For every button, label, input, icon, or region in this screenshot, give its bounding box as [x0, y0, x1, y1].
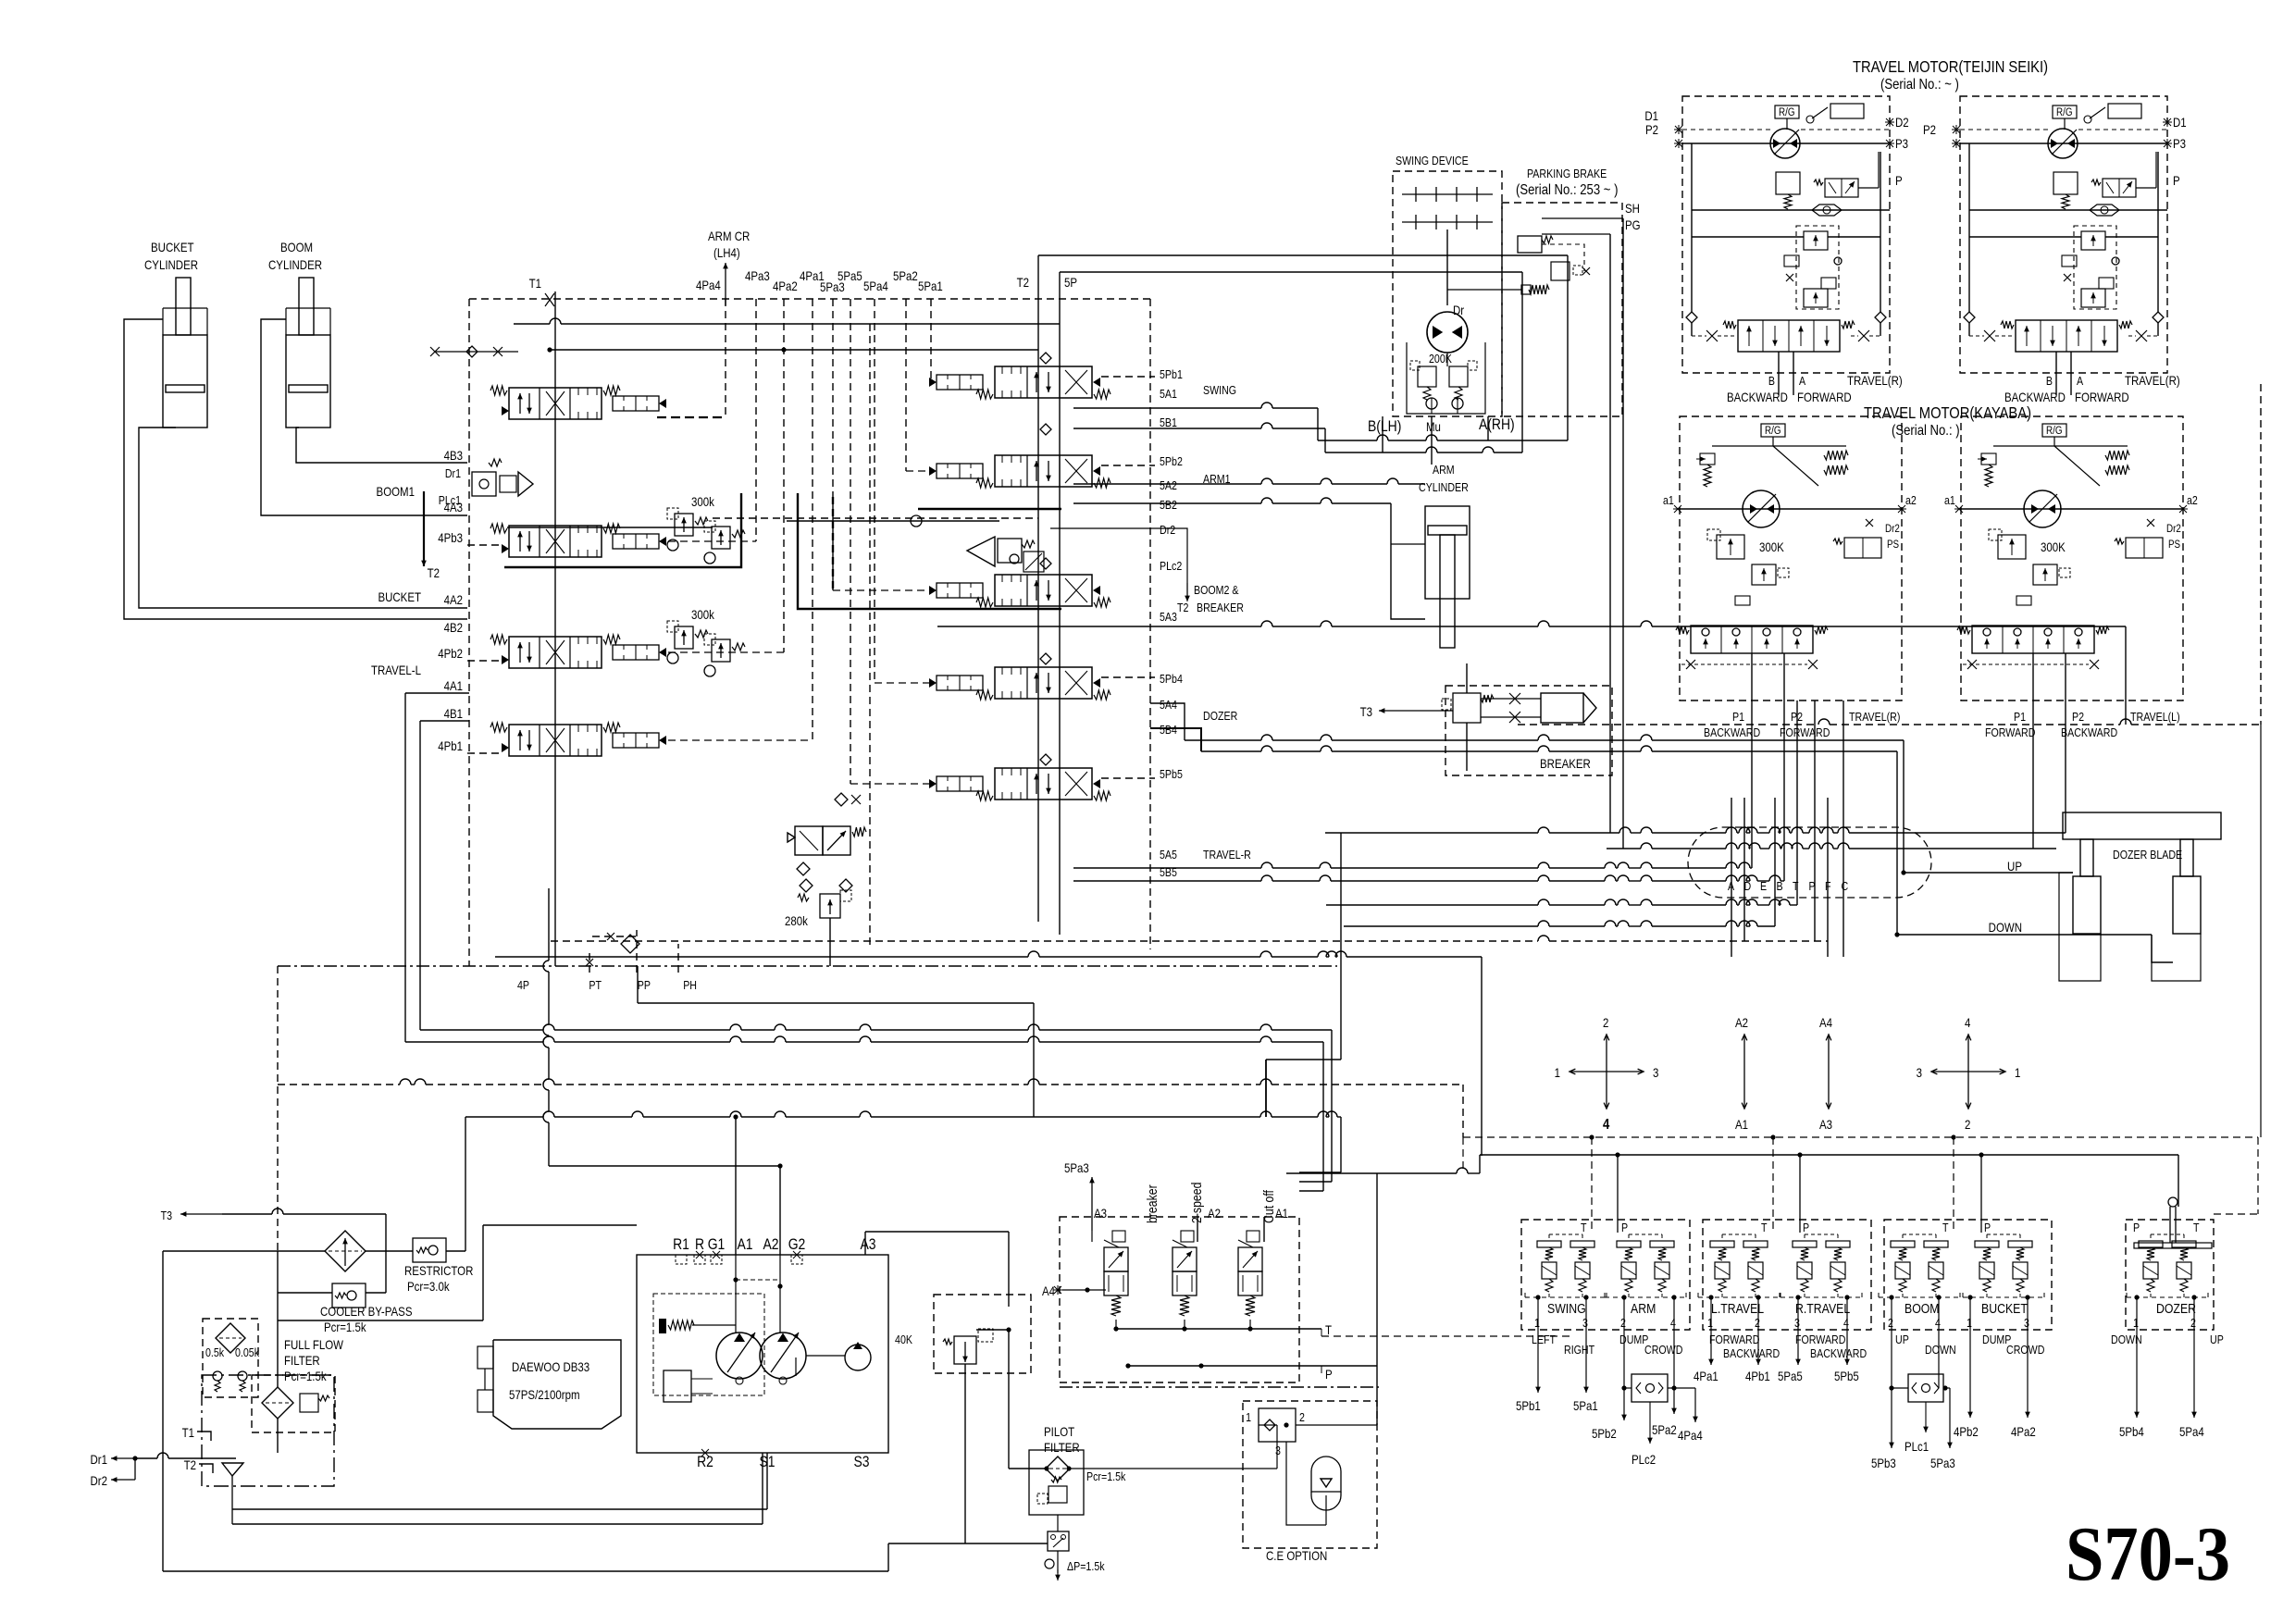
svg-text:T: T [1793, 879, 1799, 893]
svg-text:4B3: 4B3 [444, 448, 463, 463]
svg-text:R: R [695, 1236, 704, 1254]
svg-text:4: 4 [1670, 1316, 1676, 1330]
accumulator [1311, 1457, 1341, 1492]
svg-text:3: 3 [1794, 1316, 1800, 1330]
svg-text:DAEWOO DB33: DAEWOO DB33 [512, 1359, 589, 1374]
svg-text:1: 1 [2133, 1316, 2139, 1330]
travel motor Teijin Seiki left [1960, 96, 2167, 373]
svg-text:D1: D1 [2173, 115, 2187, 130]
svg-text:4Pa4: 4Pa4 [696, 278, 721, 292]
svg-text:PS: PS [1887, 539, 1899, 551]
svg-text:A1: A1 [1735, 1117, 1748, 1132]
oil cooler [325, 1231, 366, 1271]
svg-text:280k: 280k [785, 913, 808, 928]
svg-text:5Pb2: 5Pb2 [1592, 1426, 1617, 1441]
wire bucket cylinder piping [124, 319, 467, 619]
svg-text:1: 1 [1555, 1065, 1560, 1080]
wire 5A3 line [937, 626, 1261, 627]
anticavitation check top-left [435, 351, 518, 353]
svg-text:BUCKET: BUCKET [151, 240, 194, 254]
svg-text:5Pb3: 5Pb3 [1871, 1456, 1896, 1470]
parking brake block [1502, 203, 1622, 416]
wire S1 down [766, 1453, 768, 1509]
svg-text:DOZER BLADE: DOZER BLADE [2113, 848, 2182, 862]
svg-text:4P: 4P [517, 978, 529, 992]
svg-text:C.E OPTION: C.E OPTION [1266, 1548, 1327, 1563]
wire dashed PS bus right [1518, 724, 1818, 725]
svg-text:5Pb1: 5Pb1 [1516, 1398, 1541, 1413]
svg-text:T1: T1 [182, 1425, 194, 1440]
svg-text:P: P [1621, 1221, 1628, 1234]
cooler by-pass [332, 1283, 366, 1308]
svg-text:DOWN: DOWN [1989, 920, 2022, 935]
svg-text:(Serial No.: ~ ): (Serial No.: ~ ) [1880, 77, 1959, 93]
svg-text:R1: R1 [673, 1236, 689, 1254]
tank dashed box [202, 1375, 334, 1486]
svg-text:A3: A3 [860, 1236, 875, 1254]
wire cooler line [163, 1250, 325, 1252]
boom2 lock valve [967, 537, 995, 566]
solenoid valve 2-speed [1173, 1247, 1197, 1271]
svg-text:4Pb2: 4Pb2 [438, 646, 463, 661]
svg-text:4Pa4: 4Pa4 [1678, 1428, 1703, 1443]
svg-text:4Pb1: 4Pb1 [1745, 1369, 1770, 1383]
wire T2 return left vertical [1037, 255, 1039, 922]
svg-text:R/G: R/G [2056, 106, 2073, 118]
pilot valve box swing/arm [1521, 1220, 1690, 1330]
svg-text:T3: T3 [161, 1209, 173, 1222]
svg-text:Dr2: Dr2 [1160, 523, 1175, 537]
wire 40K connections [1008, 1232, 1010, 1307]
pilot valve box travel [1703, 1220, 1871, 1330]
svg-text:FORWARD: FORWARD [1709, 1333, 1759, 1346]
svg-text:BREAKER: BREAKER [1540, 756, 1591, 771]
svg-text:TRAVEL MOTOR(TEIJIN SEIKI): TRAVEL MOTOR(TEIJIN SEIKI) [1853, 58, 2048, 77]
svg-text:P2: P2 [1791, 710, 1803, 724]
svg-text:Pcr=1.5k: Pcr=1.5k [324, 1320, 366, 1334]
svg-text:RIGHT: RIGHT [1564, 1343, 1594, 1357]
svg-text:4Pb2: 4Pb2 [1954, 1424, 1979, 1439]
wire pump internals [735, 1255, 737, 1333]
joystick axis A2/A1 [1743, 1035, 1745, 1072]
svg-text:A: A [1728, 879, 1734, 893]
gear pump [845, 1345, 871, 1370]
svg-text:FORWARD: FORWARD [1985, 725, 2035, 739]
wire A2 A1 feeds up [1197, 1217, 1198, 1242]
svg-text:A4: A4 [1819, 1015, 1832, 1030]
svg-text:2: 2 [1620, 1316, 1626, 1330]
svg-text:FORWARD: FORWARD [1780, 725, 1830, 739]
svg-text:4Pa1: 4Pa1 [1694, 1369, 1718, 1383]
svg-text:FILTER: FILTER [1044, 1440, 1080, 1455]
svg-text:A2: A2 [1735, 1015, 1748, 1030]
svg-text:5Pb4: 5Pb4 [1160, 672, 1183, 686]
svg-text:3: 3 [1917, 1065, 1922, 1080]
svg-text:BACKWARD: BACKWARD [1723, 1346, 1780, 1360]
wire pilot line verticals top [755, 299, 757, 541]
pilot valve box dozer [2126, 1220, 2214, 1330]
svg-text:5Pa1: 5Pa1 [918, 279, 943, 293]
svg-text:4Pa3: 4Pa3 [745, 268, 770, 283]
svg-text:2-speed: 2-speed [1189, 1183, 1204, 1223]
wire tank supply vertical [277, 1293, 279, 1320]
svg-text:T2: T2 [1017, 275, 1029, 290]
svg-text:5A5: 5A5 [1160, 848, 1177, 862]
svg-text:BUCKET: BUCKET [1981, 1301, 2028, 1316]
joystick cross swing/arm [1570, 1071, 1607, 1072]
swing motor [1427, 312, 1468, 353]
svg-text:T: T [2193, 1221, 2200, 1234]
svg-text:5Pb2: 5Pb2 [1160, 454, 1183, 468]
svg-text:DOZER: DOZER [1203, 709, 1238, 723]
parking brake spring coil [1529, 285, 1549, 294]
svg-text:P2: P2 [1645, 122, 1658, 137]
svg-text:5Pa2: 5Pa2 [1652, 1422, 1677, 1437]
wire dashed drain to T3 area [277, 966, 279, 1251]
svg-text:(Serial No.: 253 ~ ): (Serial No.: 253 ~ ) [1516, 182, 1618, 198]
wire pilot P solid feed [1480, 1154, 2178, 1156]
svg-text:5A2: 5A2 [1160, 478, 1177, 492]
svg-text:D2: D2 [1895, 115, 1909, 130]
svg-text:Pcr=1.5k: Pcr=1.5k [1086, 1469, 1125, 1483]
svg-text:5B2: 5B2 [1160, 498, 1177, 512]
joystick axis A4/A3 [1828, 1035, 1830, 1072]
valve bucket 4 section [509, 637, 602, 668]
svg-text:PT: PT [589, 978, 602, 992]
wire T2 drain bold [423, 491, 425, 566]
dash-dot block bottom [1060, 1386, 1379, 1388]
svg-text:F: F [1825, 879, 1831, 893]
svg-text:R.TRAVEL: R.TRAVEL [1795, 1301, 1851, 1316]
svg-text:B: B [2046, 374, 2053, 388]
svg-text:5A3: 5A3 [1160, 610, 1177, 624]
svg-text:1: 1 [1707, 1316, 1713, 1330]
wire 4Pb3 dashed pilot [467, 544, 500, 546]
parking brake relief [1551, 262, 1570, 280]
svg-text:ΔP=1.5k: ΔP=1.5k [1067, 1559, 1105, 1573]
svg-text:1: 1 [1534, 1316, 1540, 1330]
svg-text:FORWARD: FORWARD [2075, 390, 2129, 404]
svg-text:RESTRICTOR: RESTRICTOR [404, 1263, 473, 1278]
svg-text:PILOT: PILOT [1044, 1424, 1074, 1439]
wire T/P drops to pilot boxes [1591, 1137, 1593, 1233]
swing check valves [1426, 398, 1437, 409]
svg-text:DOWN: DOWN [2111, 1333, 2142, 1346]
svg-text:BACKWARD: BACKWARD [2061, 725, 2117, 739]
svg-text:P1: P1 [2014, 710, 2026, 724]
svg-text:T2: T2 [1177, 601, 1188, 614]
svg-text:Dr2: Dr2 [91, 1473, 107, 1488]
svg-text:5Pa4: 5Pa4 [863, 279, 888, 293]
wire filter plumbing [277, 1320, 279, 1387]
wire dozer up [1904, 872, 2073, 874]
svg-text:5Pb5: 5Pb5 [1834, 1369, 1859, 1383]
svg-text:BOOM2 &: BOOM2 & [1194, 583, 1239, 597]
svg-text:Mu: Mu [1426, 419, 1441, 434]
valve swing 5 section [995, 366, 1092, 398]
wire 4Pb1 dashed pilot [467, 752, 500, 754]
svg-text:B(LH): B(LH) [1368, 418, 1401, 436]
svg-text:TRAVEL-L: TRAVEL-L [371, 663, 421, 677]
svg-text:4Pa2: 4Pa2 [2011, 1424, 2036, 1439]
svg-text:ARM: ARM [1433, 463, 1455, 477]
svg-text:T: T [1942, 1221, 1949, 1234]
svg-text:PLc2: PLc2 [1632, 1452, 1656, 1467]
svg-text:TRAVEL(R): TRAVEL(R) [1847, 373, 1903, 388]
svg-text:S70-3: S70-3 [2066, 1511, 2230, 1597]
svg-text:A4: A4 [1042, 1283, 1055, 1298]
svg-text:G2: G2 [788, 1236, 806, 1254]
dozer lever [2168, 1197, 2178, 1207]
valve arm-crowd 4 section (top row) [509, 388, 602, 419]
wire horizontal pilot collectors [514, 323, 550, 325]
svg-text:T1: T1 [529, 276, 541, 291]
svg-text:5Pb1: 5Pb1 [1160, 367, 1183, 381]
svg-text:5A4: 5A4 [1160, 698, 1177, 712]
svg-text:57PS/2100rpm: 57PS/2100rpm [509, 1387, 580, 1402]
wire 5B1 swing line [1073, 428, 1261, 429]
wire bundle to teijin B [1326, 904, 1538, 906]
wire 4B1 travel-L line long [420, 720, 469, 722]
pump regulator [668, 1320, 694, 1330]
svg-text:a2: a2 [1905, 493, 1917, 507]
svg-text:1: 1 [1967, 1316, 1972, 1330]
svg-text:5A1: 5A1 [1160, 387, 1177, 401]
differential switch [1048, 1531, 1069, 1551]
svg-text:2: 2 [1755, 1316, 1760, 1330]
wire parking brake lines [1542, 244, 1584, 271]
svg-text:300K: 300K [2041, 539, 2066, 554]
wire 4Pa4 arm-cr bold dashed [725, 299, 726, 417]
svg-text:PG: PG [1625, 217, 1641, 232]
breaker relief valve [1453, 693, 1481, 723]
filter on PP line [592, 936, 637, 937]
svg-text:1: 1 [1246, 1410, 1251, 1424]
wire A1 A2 A3 feeds [735, 1117, 737, 1255]
svg-text:3: 3 [2024, 1316, 2029, 1330]
svg-text:A: A [2077, 374, 2083, 388]
svg-text:4B1: 4B1 [444, 706, 463, 721]
svg-text:A3: A3 [1094, 1206, 1107, 1221]
wire parking brake SH riser [1622, 218, 1624, 849]
wire swing motor loop [1407, 342, 1485, 414]
wire dozer down [1897, 934, 2152, 936]
check valve block [1259, 1408, 1296, 1442]
svg-text:4A1: 4A1 [444, 678, 463, 693]
wire boom junction bold B [798, 493, 1061, 609]
svg-text:A3: A3 [1819, 1117, 1832, 1132]
wire tank bottom lines [232, 1523, 763, 1525]
svg-text:CROWD: CROWD [2006, 1343, 2044, 1357]
valve dozer 5 section [995, 667, 1092, 699]
svg-text:L.TRAVEL: L.TRAVEL [1711, 1301, 1764, 1316]
breaker block dashed [1445, 686, 1612, 775]
bypass filter block [203, 1319, 258, 1397]
svg-text:5Pa4: 5Pa4 [2179, 1424, 2204, 1439]
svg-text:4Pa2: 4Pa2 [773, 279, 798, 293]
pump port dashed stubs [676, 1255, 687, 1264]
svg-text:T2: T2 [184, 1457, 196, 1472]
parking brake valve [1518, 236, 1542, 253]
svg-text:2: 2 [1965, 1117, 1970, 1132]
svg-text:4: 4 [1965, 1015, 1970, 1030]
svg-text:DOWN: DOWN [1925, 1343, 1956, 1357]
svg-text:P: P [1803, 1221, 1809, 1234]
valve travel-L 4 section [509, 725, 602, 756]
svg-text:PS: PS [2168, 539, 2180, 551]
svg-text:COOLER BY-PASS: COOLER BY-PASS [320, 1304, 412, 1319]
svg-text:5Pb5: 5Pb5 [1160, 767, 1183, 781]
svg-text:UP: UP [2210, 1333, 2224, 1346]
wire center riser thick [1265, 1060, 1267, 1117]
wire kayaba right P1 P2 risers [1751, 700, 1753, 868]
svg-text:P1: P1 [1732, 710, 1744, 724]
svg-text:5Pa2: 5Pa2 [893, 268, 918, 283]
svg-text:5B1: 5B1 [1160, 415, 1177, 429]
pilot output arrows simple [1537, 1330, 1539, 1393]
breaker shutoff valves [1509, 693, 1520, 704]
svg-text:TRAVEL(L): TRAVEL(L) [2130, 710, 2180, 724]
svg-text:TRAVEL(R): TRAVEL(R) [1849, 710, 1900, 724]
svg-text:300K: 300K [1759, 539, 1784, 554]
svg-text:DOZER: DOZER [2156, 1301, 2196, 1316]
wire pilot dashed supply bus [278, 1084, 400, 1085]
breaker body [1541, 693, 1583, 723]
PLc1 shuttle under BOOM [1891, 1330, 1892, 1448]
svg-text:SWING DEVICE: SWING DEVICE [1396, 154, 1469, 167]
PT PP PH pilot symbols [589, 953, 590, 973]
svg-text:PARKING BRAKE: PARKING BRAKE [1527, 167, 1607, 180]
svg-text:5Pa1: 5Pa1 [1573, 1398, 1598, 1413]
svg-text:300k: 300k [691, 494, 714, 509]
svg-text:(LH4): (LH4) [713, 245, 740, 260]
wire 280k drain [829, 918, 831, 966]
svg-text:Dr1: Dr1 [91, 1452, 107, 1467]
svg-text:UP: UP [1895, 1333, 1909, 1346]
swing device block [1393, 171, 1502, 416]
solenoid valve block dashed box [1060, 1217, 1299, 1382]
svg-text:5Pa3: 5Pa3 [1064, 1160, 1089, 1175]
svg-text:5B5: 5B5 [1160, 865, 1177, 879]
svg-text:PLc2: PLc2 [1160, 559, 1182, 573]
svg-text:Dr2: Dr2 [2166, 523, 2181, 535]
wire dashed drain bundle [551, 940, 1538, 942]
svg-text:4Pb3: 4Pb3 [438, 530, 463, 545]
svg-text:ARM CR: ARM CR [708, 229, 750, 243]
travel motor Kayaba left [1961, 416, 2183, 700]
svg-text:40K: 40K [895, 1333, 912, 1346]
wire 4P feed vertical [548, 888, 550, 961]
valve arm1 5 section [995, 455, 1092, 487]
svg-text:PP: PP [638, 978, 651, 992]
svg-text:BREAKER: BREAKER [1197, 601, 1244, 614]
travel straight valve [795, 826, 823, 855]
svg-text:BOOM: BOOM [280, 240, 313, 254]
svg-text:5Pa5: 5Pa5 [1778, 1369, 1803, 1383]
svg-text:5Pa3: 5Pa3 [1930, 1456, 1955, 1470]
svg-text:TRAVEL MOTOR(KAYABA): TRAVEL MOTOR(KAYABA) [1864, 404, 2031, 423]
wire bypass [277, 1251, 279, 1293]
svg-text:P3: P3 [1895, 136, 1908, 151]
check valves on 5P feed [1040, 353, 1051, 364]
svg-text:2: 2 [2190, 1316, 2196, 1330]
wire 5Pb pilot dashed stubs [1101, 376, 1155, 378]
wire 5B4 dozer down line [1150, 728, 1201, 751]
wire PP return line [637, 966, 639, 1003]
svg-text:A(RH): A(RH) [1479, 416, 1515, 434]
wire kayaba left ports down [2032, 700, 2034, 849]
svg-text:T3: T3 [1360, 704, 1372, 719]
svg-text:Pcr=3.0k: Pcr=3.0k [407, 1279, 450, 1294]
pilot valve box boom/bucket [1884, 1220, 2052, 1330]
svg-text:SWING: SWING [1547, 1301, 1586, 1316]
svg-text:CYLINDER: CYLINDER [268, 257, 322, 272]
svg-text:PH: PH [683, 978, 697, 992]
svg-text:A2: A2 [1208, 1206, 1221, 1221]
svg-text:0.05k: 0.05k [235, 1345, 259, 1359]
svg-text:BACKWARD: BACKWARD [1810, 1346, 1867, 1360]
svg-text:0.5k: 0.5k [205, 1345, 224, 1359]
wire swing Mu stub [1431, 416, 1433, 465]
boom1 holding valve [472, 472, 496, 496]
svg-text:300k: 300k [691, 607, 714, 622]
wire 40K drain to tank [964, 1364, 966, 1543]
svg-text:P: P [1895, 173, 1903, 188]
dashed boundary of 5-series block [469, 298, 1150, 300]
svg-text:P: P [1325, 1367, 1333, 1382]
svg-text:3: 3 [1582, 1316, 1588, 1330]
svg-text:D1: D1 [1644, 108, 1658, 123]
valve boom1 4 section [509, 526, 602, 557]
hose bundle oval [1688, 827, 1931, 898]
svg-text:B: B [1777, 879, 1783, 893]
svg-text:BACKWARD: BACKWARD [2004, 390, 2066, 404]
svg-text:a1: a1 [1944, 493, 1955, 507]
svg-text:Dr1: Dr1 [445, 466, 462, 480]
wire arm bold C [918, 508, 1061, 510]
svg-text:B: B [1768, 374, 1775, 388]
wire 5Pa3 bold dashed column [832, 497, 834, 590]
wire oval columns [1731, 798, 1732, 957]
svg-text:PLc1: PLc1 [1905, 1439, 1929, 1454]
svg-text:BUCKET: BUCKET [378, 589, 421, 604]
svg-text:A1: A1 [737, 1236, 752, 1254]
svg-text:BACKWARD: BACKWARD [1727, 390, 1788, 404]
svg-text:P: P [2173, 173, 2180, 188]
main piston pumps [716, 1333, 763, 1379]
C.E option dashed box [1243, 1401, 1377, 1548]
wire 5B2 arm line [1073, 502, 1261, 504]
wire 5P feed vertical [1059, 272, 1061, 935]
svg-text:5Pa5: 5Pa5 [838, 268, 862, 283]
svg-text:breaker: breaker [1145, 1184, 1160, 1223]
wire Dr2 line [1050, 527, 1155, 529]
wire 5A4 dozer up line [1150, 703, 1185, 740]
svg-text:4: 4 [1843, 1316, 1849, 1330]
wire 5A1 swing line [1073, 407, 1261, 409]
wire 4A1 travel-L line long [405, 692, 469, 694]
wire restrictor out [446, 1250, 465, 1252]
wire right mid bundle 1 [1325, 832, 1538, 834]
wire cooler return long line [465, 1116, 543, 1118]
wire arm cylinder hoses [1391, 543, 1425, 545]
restrictor [413, 1238, 446, 1262]
wire top T1 pilot rail [545, 293, 554, 306]
svg-text:Pcr=1.5k: Pcr=1.5k [284, 1369, 327, 1383]
svg-text:UP: UP [2007, 859, 2022, 874]
svg-text:4A3: 4A3 [444, 500, 463, 514]
svg-text:P: P [1984, 1221, 1991, 1234]
